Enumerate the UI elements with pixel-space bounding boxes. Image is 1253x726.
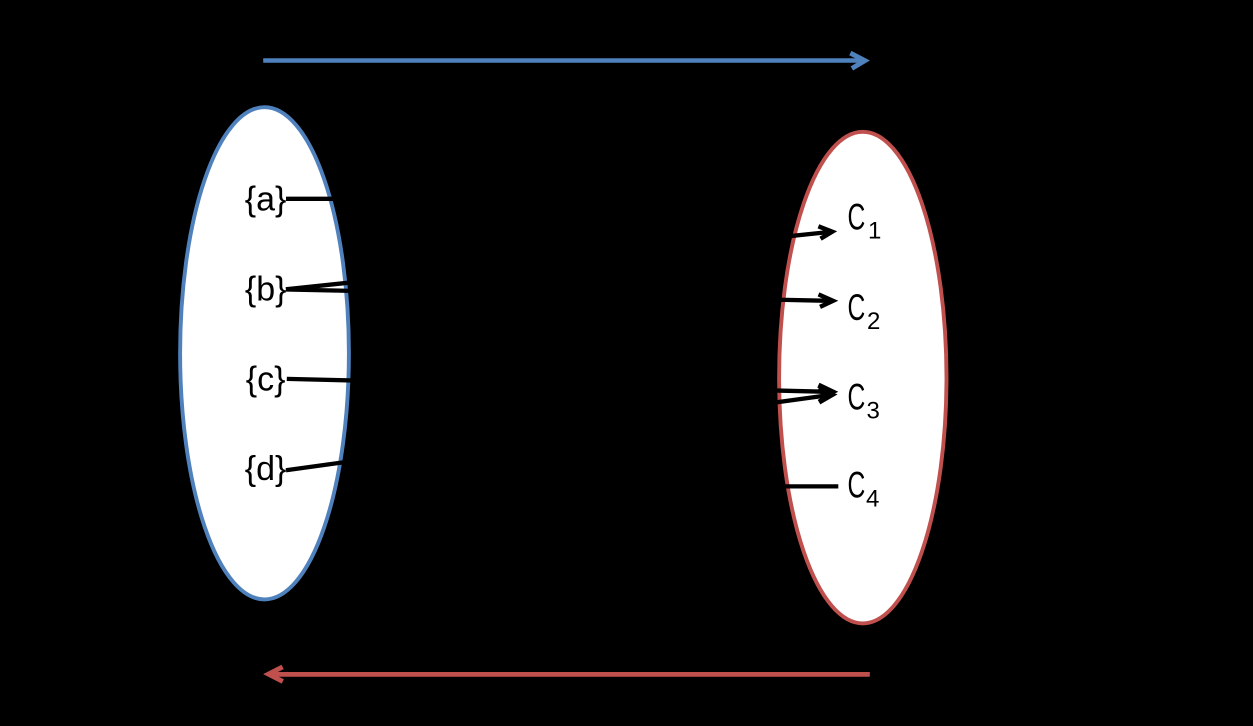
top arrow (blue, left to right): [263, 51, 870, 71]
svg-text:{d}: {d}: [245, 450, 287, 488]
connector c -> C3: [287, 379, 829, 392]
label C1: [848, 197, 866, 238]
svg-text:C: C: [848, 465, 866, 506]
label C2: [848, 287, 866, 328]
svg-text:2: 2: [867, 308, 880, 335]
svg-text:C: C: [848, 197, 866, 238]
bottom arrow (red, right to left): [263, 665, 870, 684]
connector b -> C2: [286, 290, 829, 301]
connector C4: horizontal stub into C4 (continues hidden): [560, 484, 838, 488]
right ellipse (codomain set, red): [779, 132, 946, 624]
svg-text:{b}: {b}: [245, 271, 287, 309]
svg-text:3: 3: [867, 397, 880, 424]
label C3: [848, 377, 866, 418]
svg-text:{c}: {c}: [246, 360, 286, 398]
svg-text:4: 4: [866, 486, 879, 513]
svg-text:C: C: [848, 287, 866, 328]
label C4: [848, 465, 866, 506]
svg-text:{a}: {a}: [245, 180, 287, 218]
svg-text:C: C: [848, 377, 866, 418]
svg-text:1: 1: [868, 217, 881, 244]
connector d -> C3 (second arrow): [286, 395, 828, 470]
connector a: horizontal stub from {a} (continues hidden): [286, 197, 560, 201]
connector b -> C1: [286, 232, 828, 289]
left ellipse (domain set, blue): [180, 107, 349, 599]
